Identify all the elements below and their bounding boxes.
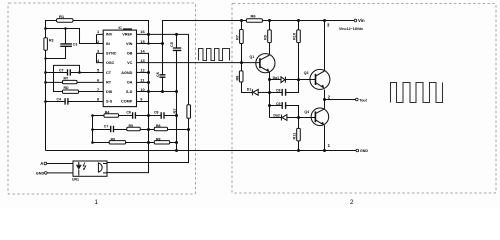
svg-text:R11: R11 — [293, 133, 297, 140]
svg-text:R5: R5 — [129, 124, 134, 128]
svg-text:RD: RD — [64, 86, 70, 90]
svg-text:UN1: UN1 — [72, 177, 79, 181]
svg-text:S-S: S-S — [106, 100, 113, 104]
svg-text:R6: R6 — [251, 14, 257, 19]
svg-text:IN: IN — [106, 42, 110, 46]
svg-text:VIN: VIN — [126, 42, 133, 46]
svg-text:R7: R7 — [173, 109, 177, 114]
svg-text:SYNC: SYNC — [106, 52, 117, 56]
svg-text:C7: C7 — [104, 124, 109, 128]
svg-text:VC: VC — [127, 61, 133, 65]
svg-text:C9: C9 — [276, 102, 281, 106]
svg-text:C4: C4 — [57, 97, 62, 101]
svg-text:DIS: DIS — [106, 90, 113, 94]
svg-text:7: 7 — [97, 87, 99, 92]
svg-text:OB: OB — [127, 52, 133, 56]
svg-text:R9: R9 — [111, 137, 116, 141]
svg-text:Vin=12~18Vdc: Vin=12~18Vdc — [339, 27, 363, 31]
svg-text:COMP: COMP — [121, 100, 133, 104]
svg-text:R4: R4 — [105, 111, 110, 115]
svg-text:R6: R6 — [156, 124, 161, 128]
svg-text:VREF: VREF — [122, 32, 133, 36]
svg-text:Q4: Q4 — [304, 110, 309, 114]
svg-text:R8: R8 — [156, 137, 161, 141]
svg-text:R1: R1 — [59, 14, 65, 19]
svg-text:GND: GND — [36, 172, 45, 176]
svg-text:Vin: Vin — [358, 18, 365, 23]
svg-text:R10: R10 — [293, 33, 297, 40]
svg-text:AGND: AGND — [121, 71, 132, 75]
svg-text:R9: R9 — [264, 35, 268, 40]
svg-text:C5: C5 — [170, 42, 174, 47]
svg-text:C8: C8 — [276, 89, 281, 93]
svg-text:Da1: Da1 — [273, 76, 279, 80]
svg-text:10: 10 — [140, 87, 144, 92]
svg-text:C6: C6 — [126, 111, 131, 115]
svg-text:R7: R7 — [235, 35, 239, 40]
svg-text:OA: OA — [127, 81, 133, 85]
svg-text:OSC: OSC — [106, 61, 114, 65]
svg-text:Q3: Q3 — [304, 71, 309, 75]
svg-text:R8: R8 — [235, 76, 239, 81]
svg-text:Q1: Q1 — [250, 55, 255, 59]
svg-text:A: A — [40, 161, 43, 166]
svg-text:Da2: Da2 — [273, 114, 279, 118]
svg-text:C3: C3 — [73, 43, 78, 47]
svg-text:D1: D1 — [247, 88, 252, 92]
svg-text:S-D: S-D — [126, 90, 133, 94]
svg-text:RT: RT — [106, 81, 112, 85]
svg-text:2: 2 — [350, 199, 354, 206]
svg-text:1: 1 — [95, 199, 99, 206]
svg-text:Tout: Tout — [359, 98, 367, 102]
svg-text:INV: INV — [106, 32, 113, 36]
svg-text:C8: C8 — [154, 111, 159, 115]
svg-text:GND: GND — [360, 149, 368, 153]
svg-text:C6: C6 — [156, 72, 160, 77]
svg-text:CT: CT — [106, 71, 112, 75]
svg-text:R3: R3 — [49, 39, 54, 43]
svg-text:IC: IC — [118, 26, 122, 30]
